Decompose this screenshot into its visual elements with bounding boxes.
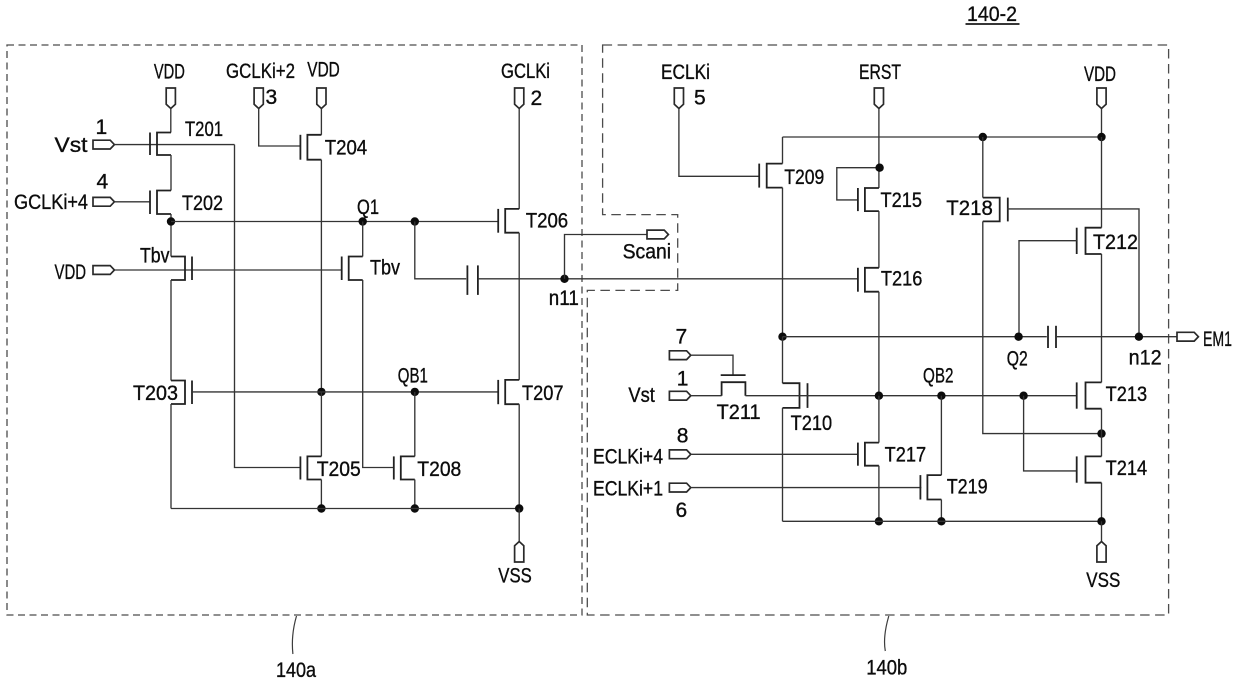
- transistor T215: [858, 188, 922, 212]
- svg-text:T203: T203: [133, 382, 178, 405]
- junction EM1 line/T209-T210 branch: [778, 333, 786, 341]
- wire T212 source down to T213 drain: [1101, 254, 1103, 382]
- wire QB2 line from T211 through T210 gate to T213 gate: [745, 395, 1076, 397]
- svg-text:4: 4: [97, 171, 109, 194]
- terminal Vst (left) with pin number 1: [55, 116, 115, 157]
- junction QB2/T214 gate branch: [1019, 392, 1027, 400]
- wire T218 source down and right to T212/T213 node: [983, 221, 1102, 433]
- junction T202/Q1: [167, 217, 175, 225]
- wire T207 source to VSS rail: [518, 404, 520, 508]
- wire T209 source down to EM1 line: [782, 188, 784, 337]
- wire GCLKi to T206 drain: [518, 109, 520, 209]
- svg-text:T213: T213: [1106, 383, 1148, 406]
- svg-text:T211: T211: [717, 401, 761, 424]
- junction VDD rail/VDD pin: [1097, 133, 1105, 141]
- svg-text:T204: T204: [325, 137, 368, 160]
- svg-text:T207: T207: [522, 382, 564, 405]
- wire VDD rail down to T218 drain: [982, 137, 984, 198]
- svg-text:T206: T206: [526, 210, 569, 233]
- ground terminal VSS (140a): [498, 542, 532, 588]
- svg-text:5: 5: [694, 87, 706, 110]
- svg-text:VDD: VDD: [307, 59, 340, 82]
- svg-text:Tbv: Tbv: [370, 257, 400, 280]
- svg-text:Vst: Vst: [628, 384, 655, 407]
- junction VDD rail/T218 branch: [979, 133, 987, 141]
- wire VDD rail to T209 drain: [782, 137, 784, 164]
- wire T204 source down across Q1 to QB1: [320, 160, 322, 392]
- wire Vst branch down to T205 gate: [235, 145, 301, 468]
- wire T210 source down to VSS rail corner: [782, 408, 784, 521]
- svg-text:VSS: VSS: [1086, 569, 1120, 592]
- wire QB2 down to T219 drain: [940, 396, 942, 475]
- node n12 junction: [1135, 333, 1143, 341]
- junction T219/VSS rail: [937, 517, 945, 525]
- svg-text:T209: T209: [784, 166, 824, 189]
- transistor T201: [150, 118, 223, 155]
- svg-text:GCLKi: GCLKi: [501, 60, 550, 83]
- wire VDD bias to both Tbv gates: [114, 269, 342, 271]
- svg-text:6: 6: [676, 499, 688, 522]
- terminal Vst (140b) with pin number 1: [628, 368, 690, 408]
- node n12 label: [1129, 347, 1162, 370]
- node n11 junction: [560, 275, 568, 283]
- wire VDD rail down to T212 drain: [1101, 137, 1103, 228]
- wire VDD to T201 drain: [170, 109, 172, 133]
- wire QB1 down to T208 drain: [414, 392, 416, 457]
- svg-text:ECLKi: ECLKi: [661, 61, 710, 84]
- junction Q1/capacitor branch: [411, 217, 419, 225]
- transistor T219: [920, 475, 987, 499]
- wire VSS ground rail of 140a: [171, 508, 519, 510]
- svg-text:140b: 140b: [866, 657, 907, 680]
- wire T203 source down to VSS rail: [170, 404, 172, 509]
- transistor T218: [946, 197, 1008, 221]
- transistor T206: [498, 209, 568, 233]
- svg-text:QB2: QB2: [923, 365, 954, 388]
- svg-text:T215: T215: [881, 189, 923, 212]
- transistor T209: [759, 164, 824, 189]
- wire T215 gate-drain loop: [837, 168, 879, 200]
- node QB2 label: [923, 365, 954, 388]
- wire QB1 junction down to T205 drain: [320, 392, 322, 457]
- wire ERST down to T215 drain: [878, 109, 880, 189]
- wire T214 source to VSS rail: [1101, 483, 1103, 522]
- wire T201 source to T202 drain: [170, 155, 172, 191]
- wire QB2 branch down to T214 gate: [1024, 396, 1077, 471]
- terminal GCLKi+2 with pin number 3: [226, 60, 295, 109]
- capacitor C2 (Q2 - n12): [1048, 326, 1056, 348]
- wire n11 line from C1 to T216 gate: [478, 278, 858, 280]
- svg-text:8: 8: [677, 425, 689, 448]
- junction T208/VSS rail: [411, 504, 419, 512]
- wire ECLKi+4 to T217 gate: [691, 453, 858, 455]
- svg-text:T210: T210: [791, 412, 833, 435]
- svg-text:GCLKi+4: GCLKi+4: [14, 191, 88, 214]
- svg-text:VDD: VDD: [1084, 63, 1116, 86]
- svg-text:2: 2: [531, 87, 543, 110]
- svg-text:T218: T218: [946, 197, 993, 220]
- node Q1 label: [357, 196, 379, 219]
- wire Vst to T211: [691, 395, 721, 397]
- svg-text:3: 3: [266, 86, 278, 109]
- svg-text:T217: T217: [885, 444, 927, 467]
- svg-text:n12: n12: [1129, 347, 1162, 370]
- svg-text:GCLKi+2: GCLKi+2: [226, 60, 295, 83]
- wire ECLKi+1 to T219 gate: [691, 487, 921, 489]
- wire T206 source to T207 drain: [518, 233, 520, 380]
- wire QB2 down to T217 drain: [878, 396, 880, 443]
- svg-text:VSS: VSS: [498, 565, 532, 588]
- wire Tbv to T203 drain: [170, 280, 172, 381]
- svg-text:ECLKi+4: ECLKi+4: [593, 446, 663, 469]
- svg-text:VDD: VDD: [154, 61, 185, 84]
- terminal ERST: [859, 61, 901, 109]
- svg-text:T212: T212: [1093, 231, 1138, 254]
- wire Q1 down to capacitor C1: [415, 222, 466, 279]
- junction QB1/T208 branch: [411, 388, 419, 396]
- wire VDD down to rail: [1101, 109, 1103, 138]
- wire node Q1 rail to T206 gate: [171, 221, 498, 223]
- transistor Tbv (left bias transistor): [140, 245, 192, 281]
- wire T212 gate to node Q2: [1019, 241, 1077, 337]
- terminal VDD (left, Tbv gate bias): [55, 261, 115, 284]
- wire n11 up to Scani output: [565, 235, 648, 279]
- svg-text:QB1: QB1: [398, 364, 428, 387]
- wire Tbv down to T208 gate: [363, 280, 394, 468]
- junction T218 source/T213 drain: [1097, 429, 1105, 437]
- wire QB1 rail from T203 gate to T207 gate: [192, 391, 499, 393]
- block label 140a: [276, 659, 316, 682]
- svg-text:1: 1: [677, 368, 689, 391]
- wire EM1 junction to T210 drain: [782, 337, 784, 384]
- svg-text:1: 1: [96, 116, 108, 139]
- wire T219 source to VSS rail: [940, 500, 942, 522]
- transistor T216: [858, 268, 923, 292]
- terminal Scani (scan output): [623, 230, 672, 263]
- wire VSS ground rail of 140b: [783, 520, 1102, 522]
- block label 140b: [866, 657, 907, 680]
- svg-text:T214: T214: [1106, 457, 1148, 480]
- junction ERST/T215 gate loop: [875, 164, 883, 172]
- svg-text:Scani: Scani: [623, 241, 672, 264]
- leader line for 140a: [292, 616, 296, 654]
- dashed box: right circuit block 140b (with notch around Scani output): [587, 45, 1168, 615]
- wire GCLKi+4 to T202 gate: [114, 201, 150, 203]
- wire T217 source to VSS rail: [878, 466, 880, 522]
- junction VSS rail/VSS pin: [515, 504, 523, 512]
- wire T216 source down to QB2 line: [878, 292, 880, 396]
- terminal ECLKi+4 with pin number 8: [593, 425, 691, 469]
- wire T213 source to T214 drain: [1101, 409, 1103, 457]
- svg-text:EM1: EM1: [1203, 328, 1232, 351]
- wire EM1 output line: [783, 336, 1047, 338]
- transistor T214: [1077, 456, 1148, 482]
- node n11 label: [549, 287, 579, 310]
- terminal VDD (top of 140b): [1084, 63, 1116, 109]
- svg-text:140-2: 140-2: [967, 3, 1017, 26]
- svg-text:Vst: Vst: [55, 134, 88, 157]
- svg-text:ERST: ERST: [859, 61, 901, 84]
- node Q2 label: [1007, 348, 1028, 371]
- svg-text:7: 7: [676, 326, 688, 349]
- junction T217/VSS rail: [875, 517, 883, 525]
- wire rail down to VSS terminal (140b): [1101, 521, 1103, 543]
- wire EM1 line from C2 to EM1 terminal: [1056, 336, 1177, 338]
- wire GCLKi+2 to T204 gate: [259, 109, 301, 147]
- transistor T211 (horizontal, in series): [717, 375, 761, 424]
- figure reference label 140-2 (underlined): [966, 3, 1020, 26]
- terminal ECLKi+1 with pin number 6: [593, 478, 691, 523]
- wire T205 source to VSS rail: [320, 480, 322, 509]
- wire VDD rail of 140b: [783, 136, 1102, 138]
- terminal VDD (top, above T201): [154, 61, 185, 109]
- junction T204/QB1: [317, 388, 325, 396]
- terminal GCLKi+4 with pin number 4: [14, 171, 114, 214]
- svg-text:n11: n11: [549, 287, 579, 310]
- wire Vst input to T201 gate and down-branch: [114, 144, 234, 146]
- transistor T210: [783, 383, 833, 435]
- junction QB2/T216-T217: [875, 392, 883, 400]
- terminal ECLKi with pin number 5: [661, 61, 710, 110]
- ground terminal VSS (140b): [1086, 542, 1120, 593]
- wire ECLKi to T209 gate: [679, 109, 760, 177]
- terminal pin number 7 input: [669, 326, 690, 360]
- svg-text:ECLKi+1: ECLKi+1: [593, 478, 663, 501]
- transistor T212: [1077, 228, 1138, 254]
- wire T208 source to VSS rail: [414, 480, 416, 509]
- svg-text:T216: T216: [881, 268, 923, 291]
- svg-text:T202: T202: [182, 192, 223, 215]
- transistor T204: [300, 135, 367, 160]
- svg-text:Q1: Q1: [357, 196, 379, 219]
- transistor T203: [133, 381, 192, 406]
- terminal GCLKi with pin number 2: [501, 60, 550, 110]
- wire rail down to VSS terminal: [518, 509, 520, 544]
- transistor T202: [150, 191, 223, 216]
- node QB1 label: [398, 364, 428, 387]
- junction VSS rail/VSS pin (140b): [1097, 517, 1105, 525]
- transistor T213: [1077, 382, 1147, 408]
- svg-text:VDD: VDD: [55, 261, 87, 284]
- terminal VDD (top, above T204): [307, 59, 340, 109]
- transistor T207: [498, 380, 563, 405]
- node Q2 junction: [1014, 333, 1022, 341]
- svg-text:T208: T208: [417, 458, 461, 481]
- transistor T205: [300, 456, 360, 481]
- svg-text:Tbv: Tbv: [140, 245, 170, 268]
- capacitor C1 (Q1 - n11): [467, 265, 478, 295]
- wire T202 source to node Q1: [170, 214, 172, 257]
- transistor Tbv (right bias transistor): [342, 257, 401, 281]
- transistor T217: [858, 443, 926, 467]
- dashed box: left circuit block 140a: [7, 45, 582, 615]
- transistor T208: [394, 456, 462, 481]
- svg-text:T205: T205: [317, 458, 361, 481]
- wire T215 source to T216 drain: [878, 211, 880, 268]
- svg-text:140a: 140a: [276, 659, 316, 682]
- svg-text:T201: T201: [185, 118, 223, 141]
- svg-text:Q2: Q2: [1007, 348, 1028, 371]
- wire VDD to T204 drain: [320, 109, 322, 135]
- svg-text:T219: T219: [947, 476, 988, 499]
- terminal EM1 (emission output): [1177, 328, 1232, 351]
- wire T218 gate to node n12: [1007, 209, 1139, 337]
- wire Q1 down to second Tbv: [362, 222, 364, 257]
- wire pin 7 to T211 gate: [691, 355, 733, 375]
- junction Q1/Tbv branch: [359, 217, 367, 225]
- leader line for 140b: [885, 616, 889, 651]
- junction QB2/T219 branch: [937, 392, 945, 400]
- junction T205/VSS rail: [317, 504, 325, 512]
